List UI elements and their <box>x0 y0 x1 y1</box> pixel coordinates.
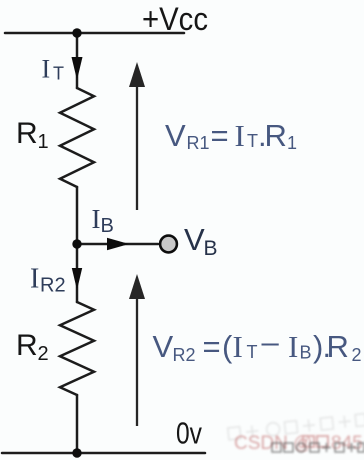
svg-text:R: R <box>16 117 38 150</box>
svg-text:I: I <box>233 329 243 364</box>
svg-text:R2: R2 <box>173 345 196 365</box>
svg-text:R: R <box>327 329 349 364</box>
svg-text:I: I <box>30 264 39 295</box>
svg-text:–: – <box>262 325 280 360</box>
svg-text:T: T <box>53 64 64 84</box>
svg-text:R2: R2 <box>40 275 66 297</box>
svg-text:I: I <box>42 55 51 84</box>
svg-text:+Vcc: +Vcc <box>142 1 208 37</box>
svg-text:V: V <box>184 222 205 257</box>
svg-text:2: 2 <box>352 345 362 365</box>
svg-text:R: R <box>265 118 287 153</box>
svg-text:T: T <box>247 131 258 151</box>
svg-text:B: B <box>300 343 312 363</box>
svg-text:I: I <box>235 118 245 153</box>
svg-text:1: 1 <box>38 131 49 153</box>
svg-text:V: V <box>165 118 186 153</box>
svg-text:I: I <box>92 204 101 234</box>
svg-text:I: I <box>288 329 298 364</box>
svg-text:B: B <box>101 215 114 237</box>
svg-text:0v: 0v <box>176 416 202 451</box>
svg-text:1: 1 <box>287 133 297 153</box>
svg-text:=: = <box>203 329 221 364</box>
svg-text:=: = <box>211 118 229 153</box>
svg-text:T: T <box>247 342 258 362</box>
svg-text:2: 2 <box>38 343 49 365</box>
svg-text:R: R <box>16 329 38 362</box>
svg-text:R1: R1 <box>187 133 210 153</box>
svg-text:(: ( <box>222 329 233 364</box>
svg-text:V: V <box>153 329 174 364</box>
svg-text:B: B <box>204 237 218 260</box>
